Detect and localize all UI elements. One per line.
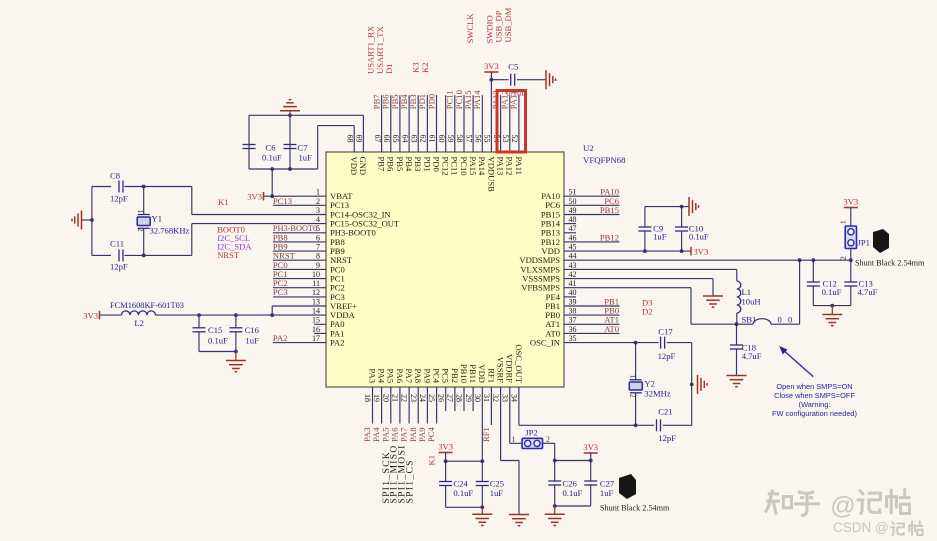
svg-text:PC10: PC10	[459, 157, 469, 176]
svg-text:Open when SMPS=ON: Open when SMPS=ON	[776, 382, 852, 391]
svg-text:0.1uF: 0.1uF	[563, 488, 583, 498]
svg-text:2: 2	[546, 435, 550, 443]
svg-text:32: 32	[491, 394, 500, 402]
svg-text:1uF: 1uF	[245, 336, 259, 346]
svg-text:12: 12	[312, 288, 320, 297]
svg-text:13: 13	[312, 297, 320, 306]
svg-text:28: 28	[455, 394, 464, 402]
svg-text:VSSRF: VSSRF	[496, 357, 506, 383]
svg-text:CSDN @: CSDN @	[833, 520, 889, 535]
svg-text:1: 1	[840, 220, 848, 224]
svg-text:PD0: PD0	[426, 94, 436, 109]
svg-text:48: 48	[569, 215, 577, 224]
svg-text:C21: C21	[658, 406, 672, 416]
svg-text:PA14: PA14	[477, 157, 487, 176]
svg-text:47: 47	[569, 224, 577, 233]
svg-text:OSC_OUT: OSC_OUT	[514, 344, 524, 383]
svg-text:37: 37	[569, 316, 577, 325]
svg-text:12pF: 12pF	[658, 433, 676, 443]
svg-text:SPI1_CS: SPI1_CS	[404, 459, 415, 503]
svg-text:9: 9	[316, 261, 320, 270]
svg-text:26: 26	[436, 394, 445, 402]
svg-text:PB10: PB10	[459, 364, 469, 383]
svg-text:6: 6	[316, 233, 320, 242]
svg-text:C25: C25	[490, 478, 504, 488]
svg-text:PA15: PA15	[468, 157, 478, 176]
svg-text:62: 62	[419, 135, 428, 143]
svg-text:VDD: VDD	[477, 364, 487, 383]
svg-text:Y2: Y2	[644, 379, 655, 389]
svg-text:SWCLK: SWCLK	[465, 13, 475, 44]
svg-text:59: 59	[446, 135, 455, 143]
svg-text:PC11: PC11	[450, 157, 460, 176]
svg-text:3V3: 3V3	[438, 442, 453, 452]
svg-text:14: 14	[312, 307, 320, 316]
svg-text:K1: K1	[427, 455, 437, 466]
svg-text:FCM1608KF-601T03: FCM1608KF-601T03	[110, 301, 184, 310]
svg-text:PD0: PD0	[431, 157, 441, 172]
svg-text:35: 35	[569, 334, 577, 343]
svg-text:30: 30	[473, 394, 482, 402]
svg-text:8: 8	[316, 252, 320, 261]
svg-text:OSC_IN: OSC_IN	[530, 338, 561, 348]
svg-text:17: 17	[312, 334, 320, 343]
svg-text:20: 20	[381, 394, 390, 402]
svg-text:0.1uF: 0.1uF	[453, 488, 473, 498]
svg-text:1uF: 1uF	[653, 232, 667, 242]
svg-text:C27: C27	[600, 478, 615, 488]
svg-text:10uH: 10uH	[742, 297, 761, 307]
svg-text:PB11: PB11	[468, 364, 478, 383]
svg-text:3V3: 3V3	[484, 61, 499, 71]
svg-text:16: 16	[312, 325, 320, 334]
svg-text:10: 10	[312, 270, 320, 279]
svg-text:65: 65	[391, 135, 400, 143]
svg-text:64: 64	[400, 135, 409, 143]
svg-text:55: 55	[483, 135, 492, 143]
svg-text:57: 57	[464, 135, 473, 143]
svg-text:33: 33	[500, 394, 509, 402]
svg-text:PA12: PA12	[505, 157, 515, 176]
svg-text:21: 21	[391, 394, 400, 402]
svg-text:1: 1	[512, 435, 516, 443]
svg-text:49: 49	[569, 206, 577, 215]
svg-text:1: 1	[629, 375, 637, 379]
svg-text:45: 45	[569, 243, 577, 252]
svg-text:52: 52	[510, 135, 519, 143]
svg-text:2: 2	[136, 228, 144, 232]
svg-text:PB12: PB12	[600, 232, 619, 242]
svg-text:69: 69	[355, 135, 364, 143]
svg-text:67: 67	[373, 135, 382, 143]
svg-text:L2: L2	[134, 318, 144, 328]
svg-text:3V3: 3V3	[83, 310, 98, 320]
svg-text:19: 19	[372, 394, 381, 402]
svg-text:PC4: PC4	[431, 368, 441, 384]
svg-text:11: 11	[312, 279, 320, 288]
svg-text:4: 4	[316, 215, 320, 224]
svg-text:GND: GND	[358, 157, 368, 176]
svg-text:50: 50	[569, 197, 577, 206]
svg-text:PA14: PA14	[472, 90, 482, 109]
svg-text:VDDRF: VDDRF	[505, 354, 515, 383]
svg-text:63: 63	[409, 135, 418, 143]
svg-text:Y1: Y1	[152, 214, 163, 224]
svg-text:PA4: PA4	[377, 369, 387, 384]
svg-text:61: 61	[428, 135, 437, 143]
svg-text:22: 22	[400, 394, 409, 402]
svg-text:3: 3	[316, 206, 320, 215]
svg-text:D2: D2	[642, 306, 653, 316]
svg-text:C6: C6	[266, 143, 277, 153]
svg-text:PA11: PA11	[514, 157, 524, 175]
svg-text:31: 31	[482, 394, 491, 402]
svg-text:PA8: PA8	[413, 369, 423, 384]
svg-text:27: 27	[446, 394, 455, 402]
svg-text:C7: C7	[298, 143, 309, 153]
svg-text:1: 1	[316, 188, 320, 197]
svg-text:PB3: PB3	[413, 157, 423, 172]
svg-text:53: 53	[501, 135, 510, 143]
svg-text:C24: C24	[453, 478, 468, 488]
svg-text:39: 39	[569, 297, 577, 306]
svg-text:2: 2	[629, 394, 637, 398]
svg-text:PA3: PA3	[367, 369, 377, 384]
svg-text:JP2: JP2	[525, 427, 537, 437]
svg-text:44: 44	[569, 252, 577, 261]
svg-text:3V3: 3V3	[247, 191, 262, 201]
svg-text:34: 34	[510, 394, 519, 402]
svg-text:K1: K1	[218, 197, 229, 207]
svg-text:PB6: PB6	[386, 157, 396, 173]
svg-text:0.1uF: 0.1uF	[822, 287, 842, 297]
svg-text:D1: D1	[384, 63, 394, 74]
svg-text:PA2: PA2	[330, 338, 345, 348]
svg-text:VDDUSB: VDDUSB	[486, 157, 496, 193]
svg-text:PC13: PC13	[273, 196, 292, 206]
svg-text:PD1: PD1	[422, 157, 432, 172]
svg-text:PB2: PB2	[450, 368, 460, 383]
svg-text:0.1uF: 0.1uF	[208, 336, 228, 346]
svg-text:43: 43	[569, 261, 577, 270]
svg-text:15: 15	[312, 316, 320, 325]
svg-text:PB7: PB7	[377, 157, 387, 173]
svg-text:VDD: VDD	[349, 157, 359, 176]
svg-text:29: 29	[464, 394, 473, 402]
svg-text:41: 41	[569, 279, 577, 288]
svg-text:Shunt Black 2.54mm: Shunt Black 2.54mm	[600, 503, 670, 512]
svg-text:1uF: 1uF	[299, 152, 313, 162]
svg-text:1: 1	[136, 210, 144, 214]
svg-text:0.1uF: 0.1uF	[262, 152, 282, 162]
svg-text:C26: C26	[563, 478, 578, 488]
svg-text:4.7uF: 4.7uF	[742, 351, 762, 361]
svg-text:51: 51	[569, 188, 577, 197]
svg-text:C16: C16	[245, 325, 260, 335]
svg-text:4.7uF: 4.7uF	[858, 287, 878, 297]
svg-text:18: 18	[363, 394, 372, 402]
svg-text:PA6: PA6	[395, 369, 405, 384]
svg-text:RF1: RF1	[486, 368, 496, 383]
svg-text:36: 36	[569, 325, 577, 334]
svg-text:60: 60	[437, 135, 446, 143]
svg-text:JP1: JP1	[858, 238, 870, 248]
svg-text:PA9: PA9	[422, 369, 432, 384]
svg-text:3V3: 3V3	[583, 442, 598, 452]
svg-text:56: 56	[474, 135, 483, 143]
svg-text:0 0: 0 0	[778, 315, 795, 325]
svg-text:C8: C8	[110, 171, 120, 181]
svg-text:3V3: 3V3	[843, 197, 858, 207]
svg-text:2: 2	[840, 256, 848, 260]
svg-text:K2: K2	[420, 62, 430, 73]
svg-text:7: 7	[316, 243, 320, 252]
svg-text:PA7: PA7	[404, 369, 414, 384]
svg-text:32.768KHz: 32.768KHz	[150, 226, 190, 236]
svg-text:3V3: 3V3	[694, 246, 709, 256]
svg-text:42: 42	[569, 270, 577, 279]
svg-text:C15: C15	[208, 325, 222, 335]
svg-text:Shunt Black 2.54mm: Shunt Black 2.54mm	[855, 258, 925, 267]
svg-text:46: 46	[569, 233, 577, 242]
svg-text:USB_DM: USB_DM	[503, 7, 513, 42]
svg-text:C17: C17	[658, 326, 673, 336]
svg-text:PC3: PC3	[273, 287, 288, 297]
svg-text:NRST: NRST	[217, 250, 240, 260]
svg-text:VFQFPN68: VFQFPN68	[583, 155, 626, 165]
svg-text:66: 66	[382, 135, 391, 143]
svg-text:PA5: PA5	[386, 369, 396, 384]
svg-text:SB1: SB1	[742, 315, 757, 325]
svg-text:PB5: PB5	[395, 157, 405, 172]
svg-text:23: 23	[409, 394, 418, 402]
svg-text:PC5: PC5	[441, 368, 451, 383]
svg-text:PA2: PA2	[273, 333, 288, 343]
svg-text:24: 24	[418, 394, 427, 402]
svg-text:0.1uF: 0.1uF	[506, 87, 526, 97]
svg-text:L1: L1	[742, 287, 752, 297]
svg-text:12pF: 12pF	[658, 351, 676, 361]
svg-text:FW configuration needed): FW configuration needed)	[772, 409, 857, 418]
svg-text:0.1uF: 0.1uF	[689, 232, 709, 242]
svg-text:38: 38	[569, 307, 577, 316]
svg-text:PB4: PB4	[404, 157, 414, 173]
svg-text:12pF: 12pF	[110, 194, 128, 204]
svg-text:32MHz: 32MHz	[644, 389, 670, 399]
svg-text:PA13: PA13	[496, 157, 506, 176]
svg-text:PB15: PB15	[600, 205, 619, 215]
svg-text:U2: U2	[583, 143, 594, 153]
svg-text:25: 25	[427, 394, 436, 402]
svg-text:Close when SMPS=OFF: Close when SMPS=OFF	[774, 391, 855, 400]
svg-text:PC4: PC4	[426, 426, 436, 442]
svg-text:68: 68	[345, 135, 354, 143]
svg-text:C11: C11	[110, 239, 124, 249]
svg-text:58: 58	[455, 135, 464, 143]
svg-text:1uF: 1uF	[600, 488, 614, 498]
svg-text:2: 2	[316, 197, 320, 206]
svg-text:@: @	[830, 492, 855, 520]
svg-text:AT0: AT0	[604, 324, 619, 334]
svg-text:C5: C5	[508, 62, 518, 72]
svg-text:1uF: 1uF	[490, 488, 504, 498]
svg-text:40: 40	[569, 288, 577, 297]
svg-text:PC12: PC12	[441, 157, 451, 176]
svg-text:12pF: 12pF	[110, 262, 128, 272]
